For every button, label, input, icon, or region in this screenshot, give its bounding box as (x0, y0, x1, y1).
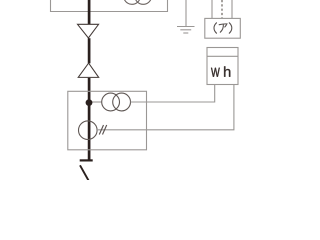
disconnect switch DS (open blade) (80, 165, 89, 181)
current transformer CT (circle on bus) (79, 121, 98, 140)
enclosure box U1 (PAS, cut off at top) (51, 0, 168, 12)
label (ア) (214, 23, 232, 33)
meter divider line (207, 55, 238, 57)
label Wh (211, 66, 230, 76)
main bus wire (thick, upper segment) (88, 0, 91, 24)
transformer T0 (VT inside top box, bottom arcs visible) (124, 0, 152, 4)
cable head CH1 (down triangle) (78, 24, 99, 38)
wire (junction to VT primary) (89, 101, 102, 103)
transformer VT (double circle in VCT box) (102, 93, 131, 111)
relay box (ア) (GR) (205, 18, 241, 38)
VCT enclosure box (68, 91, 147, 150)
disconnect switch DS (fixed contact T-bar) (80, 159, 93, 161)
wire (control leads to GR box, left solid) (211, 0, 213, 18)
wire (VT secondary to Wh meter) (131, 85, 215, 103)
main bus wire (between cable heads) (88, 38, 91, 63)
ground (earth electrode, right of top box) (177, 0, 195, 33)
meter box Wh (watt-hour meter) (207, 48, 238, 85)
wire (CT secondary to Wh meter) (97, 85, 234, 130)
cable head CH2 (up triangle) (78, 63, 99, 77)
main bus wire (lower segment) (88, 78, 91, 160)
conductor-count slashes // on CT secondary (99, 125, 106, 135)
wire (control lead, dashed middle) (221, 0, 223, 18)
wire (control lead, right solid) (231, 0, 233, 18)
junction dot (86, 99, 93, 106)
